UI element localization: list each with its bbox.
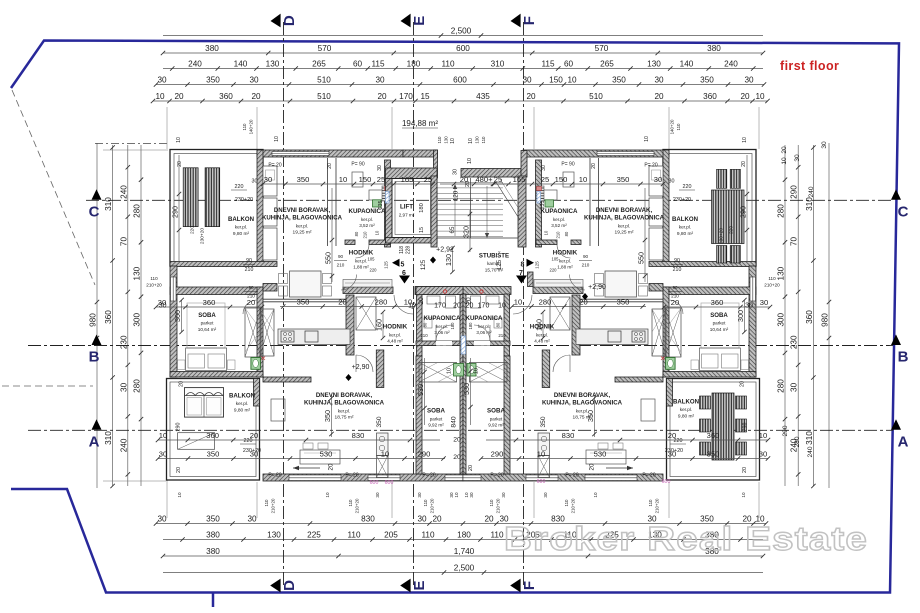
- svg-text:240: 240: [188, 60, 202, 69]
- west window soba: [750, 277, 756, 301]
- svg-text:110: 110: [264, 499, 269, 507]
- soba bed: [186, 348, 227, 371]
- stair south wall: [416, 287, 463, 295]
- svg-text:600: 600: [456, 44, 470, 53]
- svg-text:380: 380: [206, 547, 220, 556]
- svg-text:30: 30: [654, 76, 664, 85]
- svg-text:140: 140: [234, 60, 248, 69]
- top apt south wall: [343, 287, 393, 294]
- svg-text:30: 30: [821, 141, 828, 149]
- svg-text:110: 110: [768, 276, 776, 281]
- svg-text:ker.pl.: ker.pl.: [680, 407, 693, 412]
- svg-text:280: 280: [539, 298, 552, 307]
- svg-text:30: 30: [744, 76, 754, 85]
- svg-text:125: 125: [420, 259, 427, 270]
- top exterior wall: [257, 150, 403, 157]
- svg-text:150: 150: [359, 175, 372, 184]
- svg-text:350: 350: [612, 76, 626, 85]
- bottom apt north wall west part: [263, 377, 311, 382]
- svg-text:18,75 m²: 18,75 m²: [573, 415, 592, 421]
- svg-text:140: 140: [680, 60, 694, 69]
- dimension row bottom row 1: [156, 523, 766, 525]
- svg-text:10: 10: [537, 450, 545, 459]
- door arc bath c: [436, 341, 452, 346]
- svg-text:360: 360: [203, 298, 216, 307]
- dimension row axes 380-570-600: [163, 52, 763, 54]
- partition dnevni-kupaonica: [598, 158, 600, 246]
- svg-text:210: 210: [420, 333, 428, 338]
- svg-text:HODNIK: HODNIK: [383, 324, 408, 331]
- kitchen return piece: [263, 284, 277, 292]
- svg-text:20: 20: [174, 92, 184, 101]
- svg-text:360: 360: [703, 92, 717, 101]
- red x mark: [262, 357, 266, 361]
- svg-text:30: 30: [501, 492, 506, 498]
- top apt bath fixtures: [563, 172, 574, 187]
- section axis B: [28, 345, 893, 347]
- bottom apt wardrobe xbox: [652, 309, 666, 356]
- svg-text:10: 10: [759, 431, 767, 440]
- arrow entry: [293, 467, 320, 469]
- svg-text:65: 65: [449, 226, 456, 233]
- svg-text:E: E: [411, 580, 428, 590]
- dimension column interior 550 R: [644, 188, 646, 282]
- axis helper dash: [95, 143, 167, 145]
- svg-text:20: 20: [740, 381, 746, 387]
- svg-text:30: 30: [541, 165, 547, 171]
- top apt light partition: [263, 298, 348, 300]
- svg-text:194,88 m²: 194,88 m²: [402, 119, 438, 128]
- svg-text:125: 125: [496, 259, 503, 270]
- soba-c left wall: [504, 356, 510, 474]
- svg-text:130: 130: [777, 266, 786, 280]
- svg-text:20: 20: [453, 437, 461, 444]
- svg-text:9,80 m²: 9,80 m²: [234, 408, 251, 414]
- soba carpet: [187, 303, 225, 348]
- svg-text:220: 220: [235, 184, 244, 190]
- balcony top-left inner: [667, 154, 752, 263]
- svg-text:parket: parket: [201, 321, 214, 326]
- balcony top-left outer: [170, 150, 263, 267]
- dimension row top row 3: [163, 68, 763, 70]
- svg-text:KUHINJA, BLAGOVAONICA: KUHINJA, BLAGOVAONICA: [542, 400, 623, 407]
- svg-text:F: F: [521, 581, 538, 590]
- svg-text:130: 130: [647, 60, 661, 69]
- svg-text:10: 10: [514, 298, 522, 307]
- svg-text:600: 600: [385, 480, 394, 486]
- svg-text:110: 110: [421, 531, 434, 540]
- wardrobe xbox 2: [356, 297, 376, 330]
- svg-text:10: 10: [468, 138, 474, 144]
- svg-text:290: 290: [742, 423, 748, 432]
- dimension column left chain 980: [96, 143, 98, 488]
- svg-text:4,48 m²: 4,48 m²: [387, 338, 403, 343]
- dimension row bottom total 2500: [163, 572, 763, 574]
- svg-text:110: 110: [676, 123, 681, 131]
- svg-text:B: B: [89, 349, 100, 366]
- svg-text:210: 210: [362, 231, 367, 239]
- balcony TR table set: [712, 190, 745, 244]
- svg-text:B: B: [898, 349, 909, 366]
- svg-text:first floor: first floor: [780, 59, 839, 73]
- svg-text:+2,90: +2,90: [352, 364, 370, 371]
- svg-text:10: 10: [742, 137, 748, 143]
- svg-text:ker.pl.: ker.pl.: [478, 324, 490, 329]
- svg-text:110: 110: [423, 499, 428, 507]
- bottom apt sink col: [377, 433, 389, 456]
- balcony right wall: [257, 150, 263, 266]
- stair recess right jog: [521, 151, 527, 178]
- svg-text:30: 30: [745, 303, 753, 310]
- bottom apt north wall west part: [615, 377, 663, 382]
- balcony BL right wall: [667, 379, 673, 407]
- svg-text:8: 8: [521, 262, 525, 269]
- svg-text:980: 980: [821, 313, 830, 327]
- soba-c wardrobe: [470, 363, 508, 383]
- dimension column left chain a: [127, 145, 129, 486]
- svg-text:KUPAONICA: KUPAONICA: [348, 208, 386, 215]
- svg-text:20: 20: [453, 303, 461, 310]
- svg-text:3,52 m²: 3,52 m²: [551, 223, 567, 228]
- svg-text:310: 310: [104, 431, 113, 445]
- svg-text:15: 15: [419, 227, 425, 233]
- svg-text:150: 150: [549, 76, 563, 85]
- center top wall: [403, 150, 438, 157]
- cupboard bottom apt: [641, 399, 655, 421]
- bottom apt sink col: [538, 433, 550, 456]
- dimension column right chain a: [797, 145, 799, 486]
- dimension column interior 130: [452, 248, 454, 272]
- svg-text:P= 20: P= 20: [422, 473, 435, 479]
- svg-text:310: 310: [805, 431, 814, 445]
- soba-c left wall: [416, 356, 422, 474]
- section axis E: [413, 22, 415, 585]
- svg-text:510: 510: [589, 92, 603, 101]
- staircase: [438, 182, 504, 184]
- kupaonica-c left wall: [504, 294, 510, 356]
- balcony BR table set: [712, 393, 734, 460]
- svg-text:380: 380: [205, 44, 219, 53]
- dimension column interior 530: [424, 358, 426, 425]
- svg-text:20: 20: [432, 515, 442, 524]
- bottom exterior wall: [463, 474, 663, 481]
- west exterior wall: [170, 266, 177, 377]
- svg-text:310: 310: [491, 60, 505, 69]
- svg-text:105: 105: [368, 257, 376, 262]
- svg-text:F: F: [521, 16, 538, 25]
- door arc hodnik: [553, 355, 570, 372]
- soba bottom wall: [170, 372, 263, 378]
- svg-text:KUHINJA, BLAGOVAONICA: KUHINJA, BLAGOVAONICA: [584, 215, 665, 222]
- north symbol 1: [346, 374, 352, 381]
- svg-text:240: 240: [119, 185, 128, 199]
- svg-text:360: 360: [206, 431, 219, 440]
- svg-text:P= 20: P= 20: [268, 473, 281, 479]
- svg-text:18,75 m²: 18,75 m²: [335, 415, 354, 421]
- top wall left jog: [434, 150, 438, 178]
- svg-text:10: 10: [177, 492, 182, 498]
- svg-text:220: 220: [674, 438, 683, 444]
- svg-text:130: 130: [133, 266, 142, 280]
- svg-text:D: D: [281, 580, 298, 591]
- svg-text:110: 110: [564, 499, 569, 507]
- svg-text:30: 30: [794, 154, 801, 162]
- svg-text:P= 20: P= 20: [642, 473, 655, 479]
- svg-text:530: 530: [594, 450, 607, 459]
- bath blue shafts: [386, 192, 390, 204]
- svg-text:80: 80: [496, 322, 501, 327]
- svg-text:30: 30: [417, 515, 427, 524]
- dimension row top row 5: [153, 100, 768, 102]
- dimension column right chain 980: [828, 143, 830, 488]
- svg-text:350: 350: [617, 298, 630, 307]
- soba bed: [699, 348, 740, 371]
- svg-text:BALKON: BALKON: [673, 399, 699, 406]
- svg-text:10,64 m²: 10,64 m²: [710, 327, 729, 332]
- dimension row interior row 440 right: [486, 439, 768, 441]
- green vent 2: [373, 200, 382, 207]
- svg-text:110: 110: [490, 531, 503, 540]
- svg-text:DNEVNI BORAVAK,: DNEVNI BORAVAK,: [596, 207, 653, 214]
- bottom exterior wall: [263, 474, 463, 481]
- svg-text:80: 80: [354, 231, 359, 236]
- svg-text:20: 20: [453, 454, 461, 461]
- red vent circles: [443, 290, 446, 293]
- bottom wall windows: [289, 475, 341, 481]
- soba top wall: [663, 287, 756, 295]
- svg-text:830: 830: [352, 431, 365, 440]
- svg-text:10: 10: [339, 175, 347, 184]
- wall kupaonica-hodnik: [571, 240, 581, 245]
- svg-text:19,25 m²: 19,25 m²: [615, 230, 634, 236]
- wall near dnevni2: [542, 350, 550, 388]
- svg-text:20: 20: [177, 161, 183, 167]
- svg-text:ker.pl.: ker.pl.: [236, 401, 249, 406]
- svg-text:360: 360: [707, 431, 720, 440]
- svg-text:A: A: [898, 433, 909, 450]
- svg-text:ker.pl.: ker.pl.: [536, 332, 548, 337]
- north symbol 3: [430, 257, 436, 264]
- svg-text:165: 165: [401, 175, 414, 184]
- svg-text:9,80 m²: 9,80 m²: [677, 231, 694, 237]
- svg-text:205: 205: [384, 531, 398, 540]
- svg-text:90: 90: [246, 258, 252, 264]
- svg-text:30: 30: [654, 175, 662, 184]
- svg-text:10: 10: [447, 368, 453, 374]
- svg-text:C: C: [89, 203, 100, 220]
- dimension row interior top-left: [263, 183, 433, 185]
- svg-text:140+20: 140+20: [670, 119, 675, 134]
- dimension column balcony 290: [178, 155, 180, 262]
- svg-text:530: 530: [416, 384, 425, 396]
- svg-text:210: 210: [673, 267, 682, 273]
- svg-text:90: 90: [248, 285, 254, 290]
- center block: [386, 150, 534, 295]
- svg-text:P= 90: P= 90: [351, 162, 364, 168]
- svg-text:20: 20: [484, 515, 494, 524]
- svg-text:30: 30: [760, 298, 768, 307]
- svg-text:320: 320: [462, 226, 471, 238]
- soba carpet: [701, 303, 739, 348]
- svg-text:110: 110: [348, 499, 353, 507]
- svg-text:350: 350: [617, 175, 630, 184]
- dashed setback horizontal: [2, 385, 93, 387]
- svg-text:230: 230: [119, 335, 128, 349]
- bottom apt wardrobe xbox: [260, 309, 274, 356]
- svg-text:30: 30: [469, 492, 474, 498]
- svg-text:180: 180: [450, 322, 455, 330]
- svg-text:1,740: 1,740: [454, 547, 475, 556]
- svg-text:20: 20: [251, 92, 261, 101]
- green boxes center: [454, 364, 464, 377]
- west window soba: [171, 277, 177, 301]
- svg-text:290: 290: [739, 206, 748, 218]
- svg-text:350: 350: [207, 450, 220, 459]
- svg-text:290: 290: [171, 206, 180, 218]
- svg-text:20: 20: [781, 146, 788, 154]
- svg-text:SOBA: SOBA: [198, 312, 216, 319]
- top apt kitchen counter: [263, 166, 277, 196]
- svg-text:210+20: 210+20: [146, 283, 162, 288]
- svg-text:ker.pl.: ker.pl.: [355, 258, 367, 263]
- svg-text:230+20: 230+20: [665, 448, 683, 454]
- svg-text:118: 118: [399, 246, 405, 254]
- svg-text:parket: parket: [713, 321, 726, 326]
- dimension column right chain b: [784, 145, 786, 486]
- svg-text:20: 20: [247, 298, 255, 307]
- svg-text:130: 130: [267, 531, 281, 540]
- dimension column interior 320: [469, 210, 471, 252]
- hodnik wall vertical: [572, 295, 580, 355]
- balcony top-left inner: [174, 154, 259, 263]
- svg-text:+2,92: +2,92: [436, 247, 454, 254]
- svg-text:10: 10: [567, 76, 577, 85]
- svg-text:350: 350: [206, 515, 220, 524]
- svg-text:350: 350: [376, 416, 383, 427]
- svg-text:140+20: 140+20: [249, 119, 254, 134]
- svg-text:220: 220: [370, 268, 378, 273]
- svg-text:220: 220: [728, 226, 734, 234]
- svg-text:280: 280: [133, 204, 142, 218]
- top apt light partition: [578, 298, 663, 300]
- svg-text:20: 20: [579, 298, 587, 307]
- dimension column interior 350 R: [594, 395, 596, 437]
- building left half: [167, 150, 464, 482]
- soba-c wardrobe: [419, 363, 457, 383]
- svg-text:30: 30: [252, 179, 258, 185]
- svg-text:360: 360: [711, 298, 724, 307]
- svg-text:210+20: 210+20: [496, 498, 501, 513]
- extension lines: [166, 107, 168, 149]
- dimension row interior row 458 right: [481, 458, 768, 460]
- svg-text:30: 30: [119, 382, 128, 392]
- svg-text:20: 20: [671, 298, 679, 307]
- svg-text:D: D: [281, 15, 298, 26]
- dimension row interior top-right: [493, 183, 663, 185]
- door arc hodnik entry: [394, 295, 413, 314]
- svg-text:210+20: 210+20: [655, 498, 660, 513]
- svg-text:240: 240: [808, 186, 815, 197]
- svg-text:P= 20: P= 20: [490, 473, 503, 479]
- hodnik wall vertical: [346, 295, 354, 355]
- top apt kitchen counter: [649, 166, 663, 196]
- svg-text:DNEVNI BORAVAK,: DNEVNI BORAVAK,: [316, 392, 373, 399]
- svg-text:10: 10: [579, 175, 587, 184]
- svg-text:ker.pl.: ker.pl.: [389, 332, 401, 337]
- svg-text:SOBA: SOBA: [710, 312, 728, 319]
- building right half (mirrored): [463, 150, 760, 482]
- svg-text:30: 30: [159, 303, 167, 310]
- svg-text:110: 110: [489, 499, 494, 507]
- svg-text:980: 980: [89, 313, 98, 327]
- svg-text:220: 220: [190, 226, 196, 234]
- dimension row top row 4: [156, 84, 764, 86]
- svg-text:90: 90: [583, 254, 589, 259]
- svg-text:70: 70: [119, 237, 128, 247]
- svg-text:350: 350: [297, 175, 310, 184]
- svg-text:30: 30: [247, 515, 257, 524]
- svg-text:25: 25: [424, 175, 432, 184]
- red x mark: [661, 357, 665, 361]
- svg-text:360: 360: [104, 310, 113, 324]
- svg-text:30: 30: [453, 169, 459, 175]
- svg-text:STUBIŠTE: STUBIŠTE: [479, 252, 509, 260]
- svg-text:210+20: 210+20: [430, 498, 435, 513]
- svg-text:20: 20: [741, 161, 747, 167]
- svg-text:350: 350: [206, 76, 220, 85]
- svg-text:220: 220: [244, 438, 253, 444]
- svg-text:9,80 m²: 9,80 m²: [233, 231, 250, 237]
- svg-text:150: 150: [555, 175, 568, 184]
- door arc hodnik entry: [513, 295, 532, 314]
- svg-text:LIFT: LIFT: [400, 204, 413, 211]
- soba wardrobe: [245, 308, 261, 357]
- svg-text:220: 220: [550, 268, 558, 273]
- svg-text:230+20: 230+20: [235, 197, 253, 203]
- lift top wall: [386, 168, 438, 179]
- stair recess wall: [461, 169, 521, 178]
- bottom apt table: [300, 450, 340, 464]
- svg-text:350: 350: [540, 416, 547, 427]
- svg-text:9,80 m²: 9,80 m²: [678, 414, 695, 420]
- svg-text:25: 25: [541, 175, 549, 184]
- wall kupaonica right / lift left: [385, 160, 391, 247]
- svg-text:20: 20: [327, 163, 333, 169]
- svg-text:180: 180: [457, 531, 471, 540]
- dimension column interior 160 R: [542, 312, 544, 338]
- center-bottom south wall: [463, 287, 511, 295]
- door arc top apt: [341, 275, 357, 291]
- svg-text:20: 20: [460, 175, 468, 184]
- bottom apt kitchen counter: [576, 329, 648, 345]
- svg-text:20: 20: [466, 303, 474, 310]
- dimension column balcony 290 R: [746, 155, 748, 262]
- dimension row interior soba row: [156, 306, 262, 308]
- arrow entry: [606, 467, 633, 469]
- balcony right wall: [663, 150, 669, 266]
- svg-text:10: 10: [325, 492, 330, 498]
- svg-text:550: 550: [637, 252, 646, 264]
- svg-text:130: 130: [266, 60, 280, 69]
- svg-text:9,92 m²: 9,92 m²: [488, 422, 504, 427]
- kupaonica-c fixtures: [427, 296, 440, 304]
- svg-text:DNEVNI BORAVAK,: DNEVNI BORAVAK,: [554, 392, 611, 399]
- svg-text:4,48 m²: 4,48 m²: [534, 338, 550, 343]
- svg-text:210: 210: [337, 263, 345, 268]
- top apt dining table: [290, 271, 322, 297]
- balcony BL box diag: [178, 433, 215, 450]
- svg-text:30: 30: [790, 382, 799, 392]
